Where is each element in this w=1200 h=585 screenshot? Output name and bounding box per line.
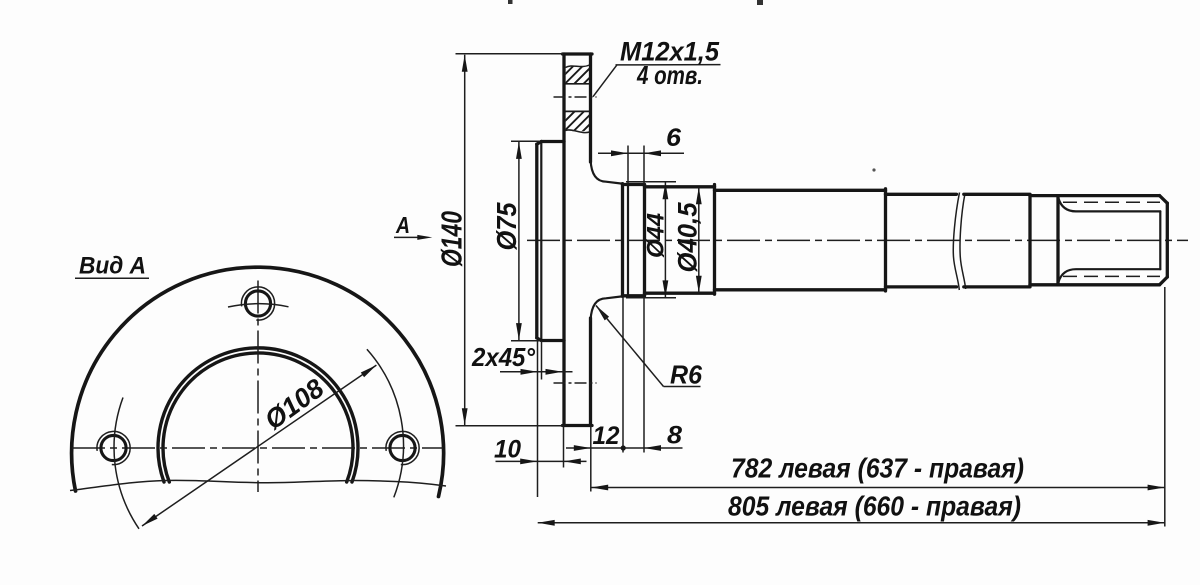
hub Ø75 (535, 144, 538, 338)
bolt hole centerline top (554, 96, 597, 98)
bolt circle arc top (228, 304, 289, 307)
view direction arrow (394, 236, 422, 238)
svg-text:10: 10 (494, 436, 521, 464)
dim 805 левая (660 - правая) (538, 522, 1165, 524)
stray speck (872, 168, 875, 171)
threaded end outline (1058, 194, 1160, 197)
svg-text:R6: R6 (670, 360, 703, 390)
svg-text:2х45°: 2х45° (471, 342, 535, 372)
vertical centerline (257, 281, 259, 493)
dim Ø140 (456, 53, 564, 55)
svg-text:4 отв.: 4 отв. (636, 60, 703, 90)
svg-text:А: А (395, 212, 410, 238)
svg-text:Вид А: Вид А (79, 253, 146, 280)
bolt hole top (245, 291, 270, 316)
flange section hatching (566, 66, 589, 84)
thread root line bottom (1063, 275, 1160, 277)
Ø44 extension line bottom (626, 297, 676, 299)
bolt hole centerline bottom (554, 382, 597, 384)
dim Ø40,5 (698, 187, 700, 293)
svg-text:Ø75: Ø75 (491, 202, 522, 250)
wrench flat boundary (1056, 196, 1059, 285)
step shoulder (884, 189, 887, 291)
bolt circle arc left (114, 398, 139, 529)
wrench flat right edge (1159, 211, 1161, 269)
svg-text:805 левая (660 - правая): 805 левая (660 - правая) (728, 491, 1021, 522)
svg-text:8: 8 (667, 422, 682, 450)
svg-text:6: 6 (666, 124, 682, 152)
bearing seat Ø40,5 (645, 185, 715, 188)
dim 2х45° (537, 341, 539, 497)
dim Ø44 (664, 182, 666, 297)
local section wavy boundaries (566, 65, 590, 68)
horizontal centerline (72, 447, 443, 449)
dim 10 (563, 426, 565, 468)
svg-text:Ø44: Ø44 (643, 213, 670, 258)
section after break (964, 193, 1030, 196)
wrench flat top (1059, 199, 1161, 212)
bolt hole left (101, 435, 126, 460)
bore circle outer (chamfer) (158, 348, 358, 482)
wrench flat bottom (1059, 269, 1161, 282)
bolt circle arc right (367, 349, 404, 497)
bore circle inner (163, 353, 353, 482)
Ø44 extension line top (626, 181, 676, 183)
label М12х1,5 / 4 отв. (593, 65, 617, 97)
thread start boundary (1028, 196, 1031, 286)
cropped text remnant top-left (508, 0, 513, 4)
bolt hole right (390, 435, 415, 460)
bolt hole bore lines (566, 83, 590, 85)
fillet R6 bottom (591, 296, 622, 320)
thread runout section (1030, 194, 1058, 197)
svg-text:782 левая (637 - правая): 782 левая (637 - правая) (731, 453, 1024, 484)
svg-text:12: 12 (593, 422, 620, 450)
axis centerline (527, 239, 1188, 241)
svg-text:Ø140: Ø140 (437, 211, 469, 267)
dimension Ø108 diagonal line (142, 365, 376, 526)
cropped text remnant top-right (757, 0, 763, 5)
dim 6 (627, 146, 629, 184)
break wavy line 2 (960, 194, 966, 290)
section after step (886, 193, 957, 196)
break wavy line 1 (953, 193, 959, 291)
thread root line top (1063, 201, 1160, 203)
svg-text:Ø40,5: Ø40,5 (673, 202, 703, 273)
collar Ø44 (621, 184, 624, 297)
flange outer circle arc Ø140 (72, 267, 444, 496)
flange disc Ø140 (562, 54, 565, 426)
label R6 (596, 306, 609, 321)
fillet R6 top (591, 160, 622, 184)
dim 782 левая (637 - правая) (1164, 287, 1166, 527)
break wavy line (left view bottom) (70, 480, 446, 490)
long section Ø40 (715, 189, 886, 192)
dim 12 and 8 (590, 426, 592, 492)
dim Ø75 (511, 140, 540, 142)
